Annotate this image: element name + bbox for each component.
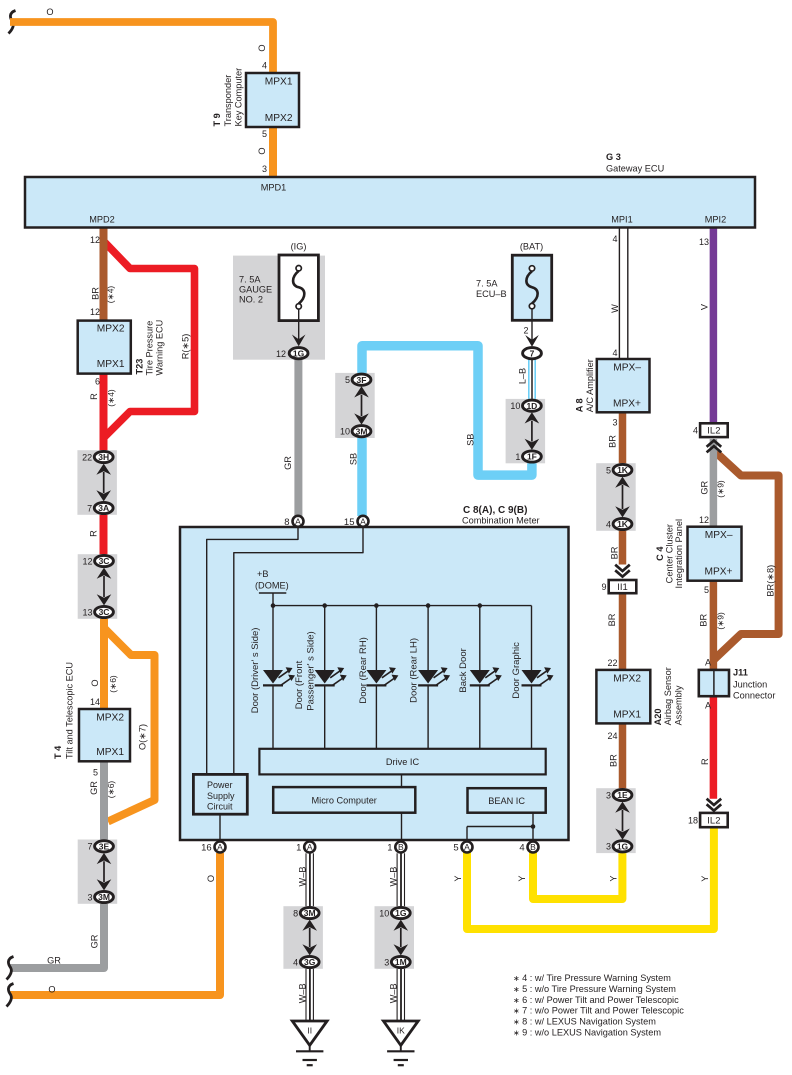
svg-text:MPX2: MPX2 <box>96 713 124 724</box>
svg-text:∗ 6 : w/ Power Tilt and Power: ∗ 6 : w/ Power Tilt and Power Telescopic <box>513 995 679 1005</box>
svg-text:SB: SB <box>466 434 476 446</box>
svg-text:3G: 3G <box>304 957 316 967</box>
svg-text:MPX2: MPX2 <box>265 113 293 124</box>
svg-text:Center Cluster: Center Cluster <box>665 524 675 583</box>
svg-text:GR: GR <box>89 781 99 795</box>
svg-text:8: 8 <box>293 908 298 918</box>
svg-text:7. 5A: 7. 5A <box>476 279 498 289</box>
svg-text:(∗4): (∗4) <box>106 286 116 304</box>
svg-text:6: 6 <box>95 377 100 387</box>
svg-text:2: 2 <box>523 326 528 336</box>
svg-text:MPD2: MPD2 <box>89 215 115 225</box>
svg-text:1D: 1D <box>526 401 537 411</box>
svg-text:3: 3 <box>612 417 617 427</box>
svg-text:12: 12 <box>699 515 709 525</box>
svg-text:Integration Panel: Integration Panel <box>674 519 684 588</box>
svg-text:(BAT): (BAT) <box>520 241 543 251</box>
svg-text:∗ 8 : w/ LEXUS Navigation Syst: ∗ 8 : w/ LEXUS Navigation System <box>513 1017 656 1027</box>
svg-text:∗ 5 : w/o Tire Pressure Warnin: ∗ 5 : w/o Tire Pressure Warning System <box>513 984 676 994</box>
svg-text:4: 4 <box>606 519 611 529</box>
svg-text:Connector: Connector <box>733 691 775 701</box>
svg-text:GR: GR <box>47 956 61 966</box>
svg-text:Door (Rear LH): Door (Rear LH) <box>409 638 420 703</box>
svg-text:BR: BR <box>608 435 618 448</box>
svg-text:13: 13 <box>82 607 92 617</box>
svg-text:10: 10 <box>340 427 350 437</box>
svg-text:3M: 3M <box>304 908 316 918</box>
svg-text:Y: Y <box>609 875 619 881</box>
svg-text:Gateway ECU: Gateway ECU <box>606 164 664 174</box>
svg-text:MPI2: MPI2 <box>705 215 726 225</box>
svg-text:+B: +B <box>257 569 269 579</box>
svg-text:W–B: W–B <box>389 867 399 887</box>
svg-text:Junction: Junction <box>733 680 767 690</box>
svg-text:(IG): (IG) <box>291 241 307 251</box>
svg-text:3: 3 <box>606 790 611 800</box>
svg-text:II1: II1 <box>617 582 628 593</box>
svg-text:NO. 2: NO. 2 <box>239 295 263 305</box>
svg-text:Y: Y <box>453 875 463 881</box>
svg-text:Power: Power <box>207 780 233 790</box>
svg-text:MPX–: MPX– <box>705 530 733 541</box>
svg-text:II: II <box>307 1026 312 1036</box>
svg-text:T 9: T 9 <box>212 113 222 126</box>
svg-text:3: 3 <box>262 164 267 174</box>
svg-text:4: 4 <box>612 348 617 358</box>
svg-text:A: A <box>295 516 301 526</box>
svg-text:O: O <box>90 679 100 686</box>
svg-text:GR: GR <box>700 480 710 494</box>
svg-text:7: 7 <box>87 842 92 852</box>
svg-text:1E: 1E <box>617 790 628 800</box>
svg-text:V: V <box>700 303 710 310</box>
svg-text:R(∗5): R(∗5) <box>181 334 191 360</box>
svg-text:Door (Rear RH): Door (Rear RH) <box>358 637 369 704</box>
svg-text:MPX1: MPX1 <box>96 747 124 758</box>
svg-text:BR: BR <box>607 613 617 626</box>
svg-text:3H: 3H <box>98 452 109 462</box>
svg-text:22: 22 <box>607 658 617 668</box>
svg-text:IL2: IL2 <box>707 815 720 826</box>
svg-text:O: O <box>46 7 53 17</box>
svg-text:5: 5 <box>606 465 611 475</box>
svg-text:Drive IC: Drive IC <box>386 757 420 767</box>
svg-text:1: 1 <box>296 843 301 854</box>
svg-text:3: 3 <box>606 842 611 852</box>
svg-text:Warning ECU: Warning ECU <box>155 320 165 376</box>
svg-text:8: 8 <box>284 517 289 528</box>
svg-text:3E: 3E <box>99 841 110 851</box>
svg-text:5: 5 <box>93 768 98 778</box>
svg-text:MPX1: MPX1 <box>97 359 125 370</box>
svg-text:(∗9): (∗9) <box>715 612 725 630</box>
svg-text:1K: 1K <box>617 519 629 529</box>
svg-text:(DOME): (DOME) <box>255 580 289 590</box>
svg-text:C 8(A), C 9(B): C 8(A), C 9(B) <box>463 505 527 516</box>
svg-text:4: 4 <box>519 843 524 854</box>
svg-text:GR: GR <box>283 456 293 470</box>
svg-text:1M: 1M <box>395 957 407 967</box>
svg-text:O(∗7): O(∗7) <box>138 724 148 750</box>
svg-text:12: 12 <box>276 349 286 359</box>
svg-text:SB: SB <box>349 453 359 465</box>
svg-text:1: 1 <box>515 452 520 462</box>
svg-text:3: 3 <box>87 892 92 902</box>
svg-text:13: 13 <box>699 237 709 247</box>
svg-text:MPD1: MPD1 <box>261 183 287 193</box>
svg-text:10: 10 <box>510 401 520 411</box>
svg-text:Door (Driver' s Side): Door (Driver' s Side) <box>250 628 261 714</box>
svg-text:1G: 1G <box>617 841 629 851</box>
svg-text:(∗9): (∗9) <box>715 480 725 498</box>
svg-text:Supply: Supply <box>207 791 235 801</box>
svg-text:MPX+: MPX+ <box>704 567 732 578</box>
svg-text:A: A <box>360 516 366 526</box>
svg-text:MPX1: MPX1 <box>613 709 641 720</box>
svg-text:∗ 9 : w/o LEXUS Navigation Sys: ∗ 9 : w/o LEXUS Navigation System <box>513 1028 661 1038</box>
svg-text:3: 3 <box>384 957 389 967</box>
svg-text:BR(∗8): BR(∗8) <box>766 565 776 597</box>
svg-text:3F: 3F <box>357 375 367 385</box>
svg-text:BEAN IC: BEAN IC <box>488 796 525 806</box>
svg-text:ECU–B: ECU–B <box>476 289 507 299</box>
svg-text:B: B <box>398 842 404 852</box>
svg-text:∗ 7 : w/o Power Tilt and Power: ∗ 7 : w/o Power Tilt and Power Telescopi… <box>513 1006 684 1016</box>
svg-text:12: 12 <box>90 307 100 317</box>
svg-text:(∗4): (∗4) <box>106 389 116 407</box>
svg-text:Door Graphic: Door Graphic <box>511 642 522 699</box>
svg-text:MPX2: MPX2 <box>97 324 125 335</box>
svg-text:7: 7 <box>87 503 92 513</box>
svg-text:A: A <box>705 701 711 711</box>
svg-text:B: B <box>530 842 536 852</box>
svg-text:Assembly: Assembly <box>674 685 684 725</box>
svg-text:1: 1 <box>387 843 392 854</box>
svg-text:MPX2: MPX2 <box>613 673 641 684</box>
svg-text:9: 9 <box>601 582 606 592</box>
svg-text:R: R <box>700 758 710 765</box>
svg-text:4: 4 <box>612 234 617 244</box>
svg-text:Y: Y <box>517 875 527 881</box>
svg-text:Circuit: Circuit <box>207 802 233 812</box>
svg-text:3M: 3M <box>356 426 368 436</box>
svg-text:T23: T23 <box>135 359 145 375</box>
svg-text:Micro Computer: Micro Computer <box>312 796 377 806</box>
svg-text:Door (Front: Door (Front <box>294 660 305 709</box>
svg-text:O: O <box>206 875 216 882</box>
svg-text:GR: GR <box>90 934 100 948</box>
svg-text:12: 12 <box>82 556 92 566</box>
svg-text:T 4: T 4 <box>53 745 63 759</box>
svg-text:BR: BR <box>610 546 620 559</box>
svg-text:Combination Meter: Combination Meter <box>462 516 540 526</box>
svg-text:Transponder: Transponder <box>223 75 233 127</box>
svg-text:24: 24 <box>607 731 617 741</box>
svg-text:14: 14 <box>90 697 100 707</box>
svg-text:MPI1: MPI1 <box>611 215 632 225</box>
svg-text:3C: 3C <box>99 607 110 617</box>
svg-text:Tire Pressure: Tire Pressure <box>145 321 155 376</box>
svg-text:Tilt and Telescopic ECU: Tilt and Telescopic ECU <box>65 662 75 759</box>
svg-text:Airbag Sensor: Airbag Sensor <box>663 667 673 725</box>
svg-text:O: O <box>257 147 267 154</box>
svg-text:MPX1: MPX1 <box>265 77 293 88</box>
svg-text:4: 4 <box>693 426 698 436</box>
svg-text:18: 18 <box>688 815 698 825</box>
svg-text:Y: Y <box>700 876 710 882</box>
svg-text:O: O <box>48 985 55 995</box>
svg-text:GAUGE: GAUGE <box>239 285 272 295</box>
svg-text:A: A <box>217 842 223 852</box>
svg-text:W: W <box>610 304 620 313</box>
svg-text:1F: 1F <box>527 452 537 462</box>
svg-text:3C: 3C <box>99 556 110 566</box>
svg-text:O: O <box>257 44 267 51</box>
svg-text:BR: BR <box>698 613 708 626</box>
svg-text:IL2: IL2 <box>707 426 720 437</box>
svg-text:5: 5 <box>262 129 267 139</box>
svg-text:A20: A20 <box>653 709 663 726</box>
svg-text:10: 10 <box>379 908 389 918</box>
svg-text:IK: IK <box>397 1026 405 1036</box>
svg-text:7. 5A: 7. 5A <box>239 275 261 285</box>
svg-text:Back Door: Back Door <box>458 648 469 692</box>
svg-text:BR: BR <box>609 754 619 767</box>
svg-text:22: 22 <box>82 452 92 462</box>
svg-text:J11: J11 <box>733 668 748 678</box>
svg-text:G 3: G 3 <box>606 152 621 162</box>
svg-text:(∗6): (∗6) <box>108 675 118 693</box>
svg-text:5: 5 <box>453 843 458 854</box>
svg-text:Key Computer: Key Computer <box>234 68 244 127</box>
svg-text:R: R <box>89 393 99 400</box>
svg-text:4: 4 <box>262 61 267 71</box>
svg-text:∗ 4 : w/ Tire Pressure Warning: ∗ 4 : w/ Tire Pressure Warning System <box>513 973 671 983</box>
svg-text:BR: BR <box>91 287 101 300</box>
svg-text:1K: 1K <box>617 465 629 475</box>
svg-text:12: 12 <box>90 235 100 245</box>
svg-text:W–B: W–B <box>389 983 399 1003</box>
svg-text:3M: 3M <box>98 892 110 902</box>
svg-text:15: 15 <box>344 517 355 528</box>
svg-text:L–B: L–B <box>518 368 528 384</box>
svg-text:MPX+: MPX+ <box>613 398 641 409</box>
svg-text:1G: 1G <box>293 348 305 358</box>
svg-text:A 8: A 8 <box>575 398 585 412</box>
svg-text:(∗6): (∗6) <box>106 781 116 799</box>
svg-text:5: 5 <box>704 585 709 595</box>
svg-text:4: 4 <box>293 957 298 967</box>
svg-text:A/C Amplifier: A/C Amplifier <box>585 359 595 412</box>
svg-text:A: A <box>705 658 711 668</box>
svg-text:16: 16 <box>201 843 212 854</box>
svg-text:1G: 1G <box>395 908 407 918</box>
svg-text:W–B: W–B <box>297 983 307 1003</box>
svg-text:A: A <box>307 842 313 852</box>
svg-text:3A: 3A <box>98 503 109 513</box>
svg-text:C 4: C 4 <box>655 546 665 561</box>
svg-text:R: R <box>89 530 99 537</box>
svg-text:7: 7 <box>530 348 535 358</box>
svg-text:A: A <box>464 842 470 852</box>
svg-text:MPX–: MPX– <box>613 363 641 374</box>
svg-text:Passenger' s Side): Passenger' s Side) <box>306 631 317 710</box>
svg-text:W–B: W–B <box>297 867 307 887</box>
svg-text:5: 5 <box>345 375 350 385</box>
